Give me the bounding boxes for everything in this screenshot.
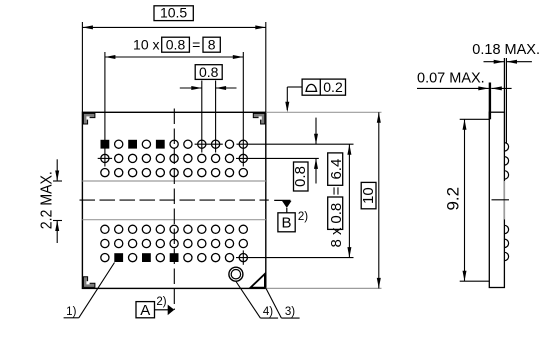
corner mark top-left: [83, 113, 95, 124]
corner mark bottom-left: [83, 277, 95, 288]
svg-text:10 x: 10 x: [133, 37, 159, 53]
svg-text:=: =: [192, 37, 200, 53]
extension row1 horizontal: [237, 143, 354, 145]
crosshair bar row1 cols8-9: [195, 143, 223, 145]
svg-text:9.2: 9.2: [444, 187, 463, 211]
package outline: [82, 112, 265, 288]
dim 8x0.8=6.4 line: [347, 144, 351, 257]
extension gray bottom edge: [266, 287, 382, 289]
svg-text:0.8: 0.8: [292, 166, 309, 187]
ball row 9: [101, 253, 248, 262]
svg-text:B: B: [281, 215, 291, 232]
dim 10 right label: [360, 182, 377, 208]
dim 10x0.8=8 label: [133, 37, 220, 53]
dim 0.18 MAX: [472, 42, 540, 64]
dim 0.8 top label: [195, 64, 222, 80]
svg-text:0.18 MAX.: 0.18 MAX.: [472, 42, 540, 58]
svg-text:10.5: 10.5: [160, 5, 187, 21]
corner mark top-right: [253, 113, 264, 124]
ball row 1: [101, 140, 248, 149]
svg-text:4): 4): [263, 306, 273, 318]
dim 2.2 MAX: [39, 159, 63, 243]
extension row9 horizontal: [236, 257, 354, 259]
svg-text:=: =: [328, 186, 345, 195]
center line vertical: [173, 109, 175, 311]
corner index triangle note3: [251, 274, 265, 288]
svg-text:2.2 MAX.: 2.2 MAX.: [39, 171, 56, 229]
dim 9.2 line: [463, 119, 467, 281]
svg-text:0.2: 0.2: [323, 79, 343, 95]
side balls: [504, 143, 508, 261]
side stiffener thick line: [489, 83, 491, 120]
side center mark: [492, 199, 510, 201]
note 1 leader: [64, 263, 115, 319]
svg-text:3): 3): [285, 306, 295, 318]
side substrate inner extension: [503, 58, 505, 112]
svg-text:A: A: [140, 302, 150, 319]
die area line upper (gray): [82, 180, 265, 182]
datum B: [274, 200, 308, 231]
side substrate outer line: [505, 58, 507, 143]
ball row 7: [101, 225, 248, 233]
crosshair row2 col1: [98, 157, 112, 159]
dim 9.2 label: [444, 187, 463, 211]
datum A: [136, 296, 174, 319]
extension col11 vertical: [242, 52, 244, 167]
extension col9 vertical: [215, 81, 217, 153]
svg-text:6.4: 6.4: [328, 159, 345, 180]
feature control frame 0.2: [302, 79, 345, 95]
dim 10.5 line: [82, 25, 265, 29]
svg-text:0.8: 0.8: [328, 203, 345, 224]
note 3 leader: [266, 288, 300, 318]
center line horizontal: [80, 199, 269, 201]
side view body: [489, 112, 504, 287]
svg-text:8: 8: [208, 37, 216, 53]
svg-text:2): 2): [298, 211, 308, 223]
dim 0.07 MAX: [417, 71, 512, 91]
side hidden segment gray: [503, 181, 505, 219]
svg-text:0.07 MAX.: 0.07 MAX.: [417, 71, 485, 87]
svg-text:0.8: 0.8: [199, 64, 219, 80]
die area line lower (gray): [82, 219, 265, 221]
dim 0.8 top arrows: [180, 86, 237, 90]
svg-text:0.8: 0.8: [166, 37, 186, 53]
dim 8x0.8=6.4 label: [328, 153, 345, 248]
dim 10.5 label: [154, 5, 193, 21]
dim 10.5 extension lines: [82, 22, 265, 112]
svg-text:8 x: 8 x: [328, 227, 345, 248]
extension row2 horizontal: [236, 157, 319, 159]
ball row 2: [101, 154, 248, 162]
svg-text:10: 10: [360, 187, 377, 204]
fcf leader: [285, 87, 302, 112]
ball row 8: [101, 239, 248, 247]
dim 10x0.8=8 line: [105, 55, 243, 59]
crosshair row9 col11 vertical stub: [242, 250, 244, 264]
dim 0.8 right: [292, 118, 318, 191]
svg-text:2): 2): [156, 296, 166, 308]
extension col1 vertical: [104, 52, 106, 167]
svg-text:1): 1): [66, 306, 76, 318]
index circle note4: [229, 267, 243, 281]
ball row 3: [101, 169, 248, 177]
extension gray top edge: [266, 111, 382, 113]
extension col8 vertical: [201, 81, 203, 153]
note 4 leader: [236, 282, 278, 319]
dim 9.2 extension lines: [460, 119, 490, 281]
dim 10 right line: [377, 112, 381, 288]
